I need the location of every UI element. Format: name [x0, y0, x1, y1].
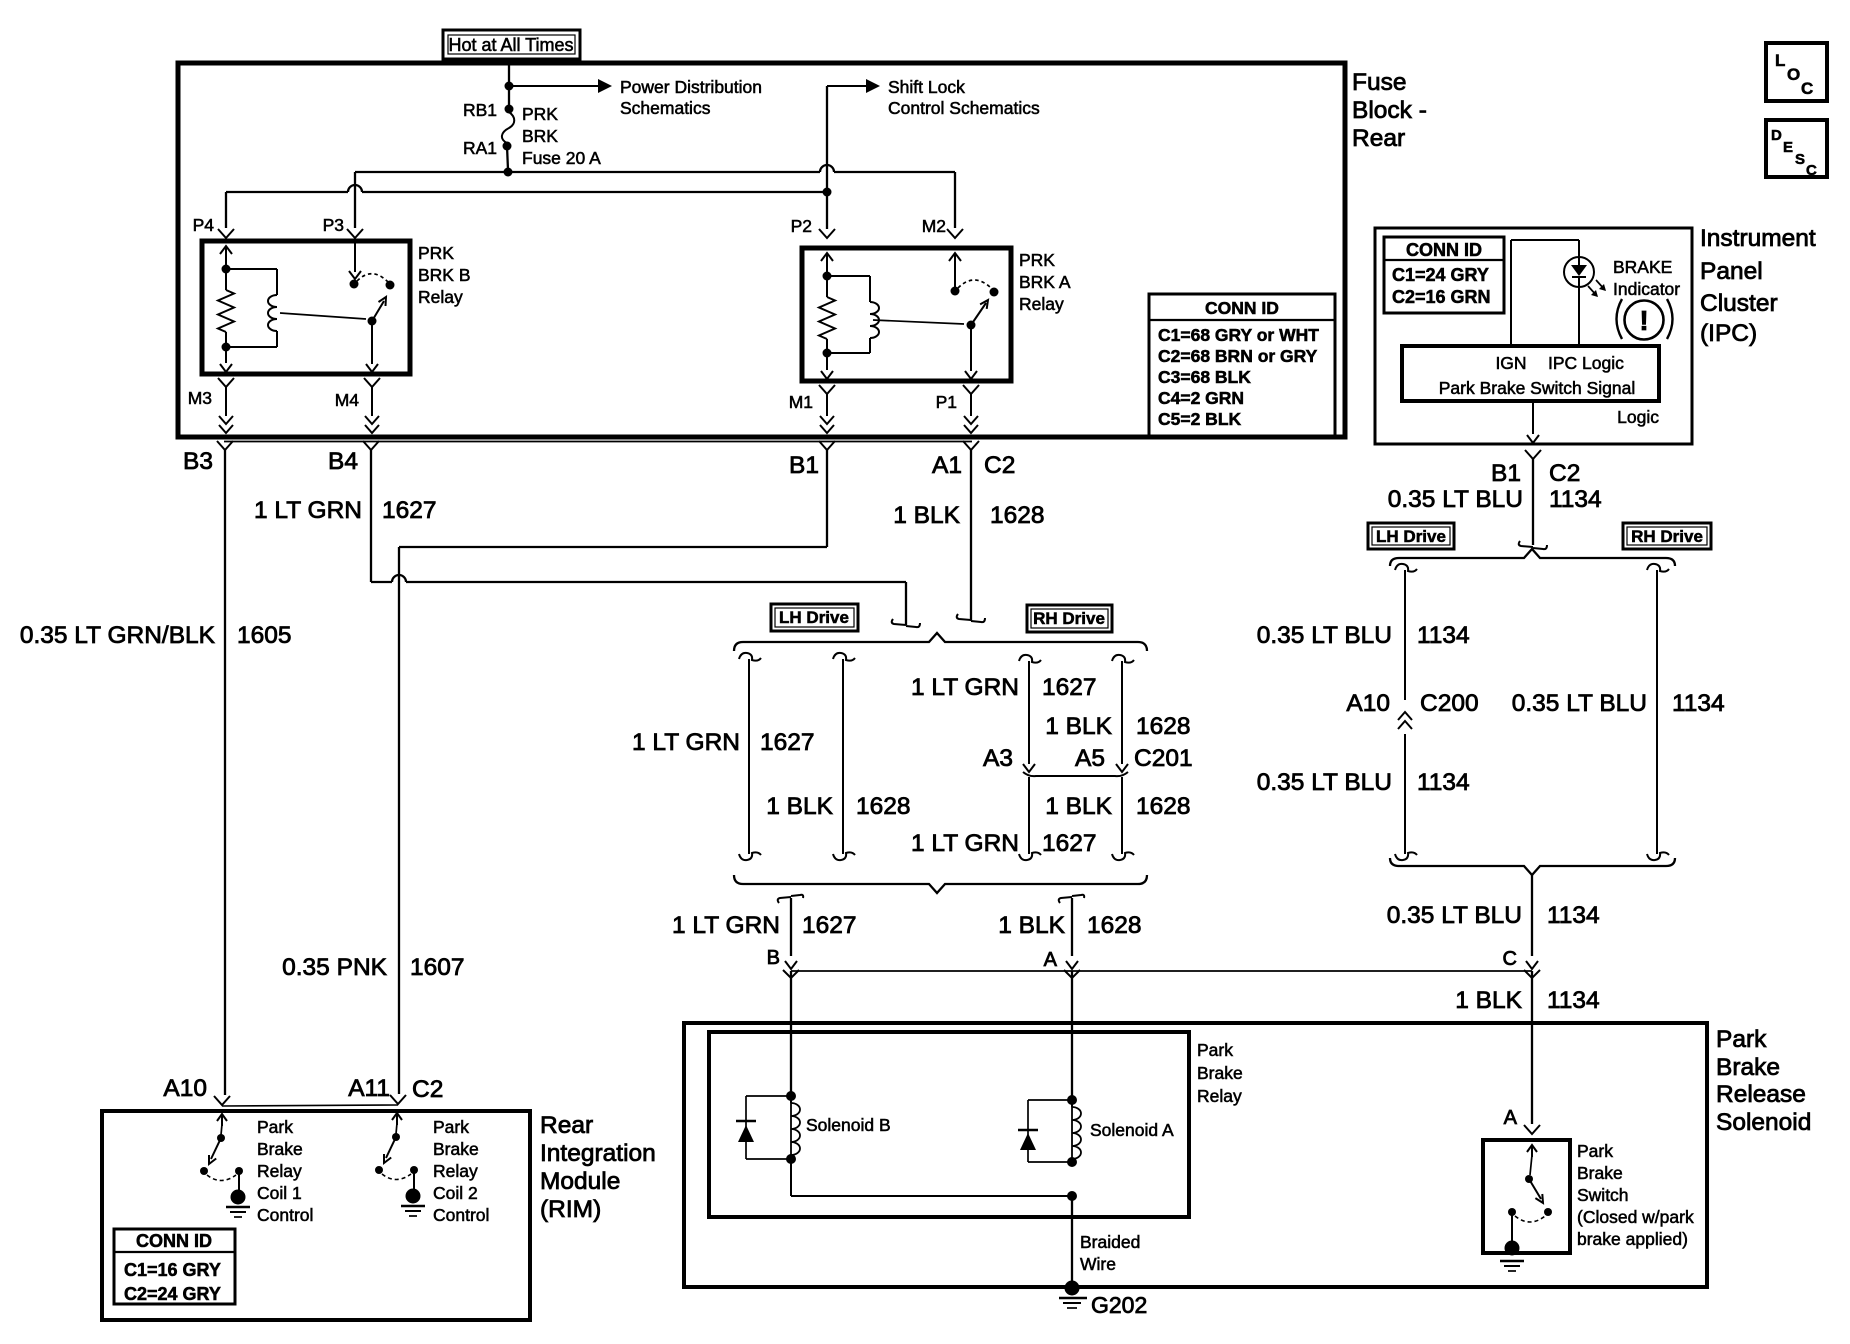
svg-text:Block -: Block - — [1352, 97, 1427, 124]
svg-text:1627: 1627 — [382, 497, 437, 524]
svg-text:C: C — [1801, 79, 1813, 98]
svg-text:0.35 LT BLU: 0.35 LT BLU — [1512, 690, 1647, 717]
svg-text:0.35 LT BLU: 0.35 LT BLU — [1257, 622, 1392, 649]
svg-text:M1: M1 — [789, 392, 813, 412]
svg-text:1627: 1627 — [802, 912, 857, 939]
svg-text:C5=2 BLK: C5=2 BLK — [1158, 409, 1242, 429]
svg-text:1627: 1627 — [1042, 674, 1097, 701]
svg-text:IGN: IGN — [1495, 353, 1526, 373]
svg-text:Indicator: Indicator — [1613, 279, 1680, 299]
svg-text:B3: B3 — [183, 448, 213, 475]
svg-text:Logic: Logic — [1617, 407, 1659, 427]
svg-text:A5: A5 — [1075, 745, 1105, 772]
svg-text:Release: Release — [1716, 1081, 1806, 1108]
svg-text:1134: 1134 — [1672, 690, 1725, 717]
svg-text:P4: P4 — [193, 215, 215, 235]
svg-text:1 LT GRN: 1 LT GRN — [632, 729, 740, 756]
svg-text:1 BLK: 1 BLK — [1045, 713, 1112, 740]
svg-text:1628: 1628 — [1087, 912, 1142, 939]
svg-text:LH Drive: LH Drive — [1376, 527, 1446, 546]
svg-text:IPC Logic: IPC Logic — [1548, 353, 1624, 373]
svg-text:Panel: Panel — [1700, 258, 1763, 285]
svg-text:P2: P2 — [791, 216, 812, 236]
svg-text:C1=16 GRY: C1=16 GRY — [124, 1260, 221, 1280]
svg-text:Control Schematics: Control Schematics — [888, 98, 1040, 118]
svg-text:Module: Module — [540, 1168, 620, 1195]
svg-text:E: E — [1783, 139, 1793, 156]
svg-text:C200: C200 — [1420, 690, 1479, 717]
svg-text:Cluster: Cluster — [1700, 290, 1778, 317]
svg-text:B1: B1 — [789, 452, 819, 479]
svg-text:A10: A10 — [163, 1075, 207, 1102]
svg-text:1134: 1134 — [1417, 622, 1470, 649]
svg-text:CONN ID: CONN ID — [136, 1231, 212, 1251]
svg-text:Integration: Integration — [540, 1140, 656, 1167]
svg-text:Brake: Brake — [433, 1139, 479, 1159]
svg-text:L: L — [1775, 51, 1785, 70]
svg-text:RB1: RB1 — [463, 100, 497, 120]
svg-text:1 BLK: 1 BLK — [1455, 987, 1522, 1014]
svg-text:Hot at All Times: Hot at All Times — [448, 35, 573, 55]
svg-text:1628: 1628 — [1136, 713, 1191, 740]
svg-text:PRK: PRK — [522, 104, 558, 124]
svg-text:BRK: BRK — [522, 126, 558, 146]
svg-text:C4=2 GRN: C4=2 GRN — [1158, 388, 1244, 408]
svg-text:1 BLK: 1 BLK — [1045, 793, 1112, 820]
svg-text:1628: 1628 — [856, 793, 911, 820]
svg-text:M4: M4 — [335, 390, 360, 410]
svg-text:LH Drive: LH Drive — [779, 608, 849, 627]
svg-text:A1: A1 — [932, 452, 962, 479]
svg-text:B1: B1 — [1491, 460, 1521, 487]
svg-text:C: C — [1806, 162, 1817, 179]
svg-text:1134: 1134 — [1549, 486, 1602, 513]
svg-text:1134: 1134 — [1417, 769, 1470, 796]
svg-text:Relay: Relay — [433, 1161, 478, 1181]
svg-text:Solenoid B: Solenoid B — [806, 1115, 891, 1135]
svg-text:C2: C2 — [984, 452, 1015, 479]
svg-text:Park: Park — [433, 1117, 469, 1137]
svg-text:brake applied): brake applied) — [1577, 1229, 1688, 1249]
svg-text:1 BLK: 1 BLK — [998, 912, 1065, 939]
svg-text:(Closed w/park: (Closed w/park — [1577, 1207, 1694, 1227]
svg-text:RA1: RA1 — [463, 138, 497, 158]
svg-text:Rear: Rear — [540, 1112, 593, 1139]
svg-text:1 BLK: 1 BLK — [766, 793, 833, 820]
svg-text:Brake: Brake — [1577, 1163, 1623, 1183]
svg-text:PRK: PRK — [418, 243, 454, 263]
svg-text:1628: 1628 — [990, 502, 1045, 529]
svg-text:C2=16 GRN: C2=16 GRN — [1392, 287, 1491, 307]
svg-text:C2=68 BRN or GRY: C2=68 BRN or GRY — [1158, 346, 1318, 366]
svg-text:Brake: Brake — [1197, 1063, 1243, 1083]
svg-text:M2: M2 — [922, 216, 946, 236]
svg-text:Instrument: Instrument — [1700, 225, 1816, 252]
svg-text:C2: C2 — [412, 1076, 443, 1103]
svg-text:1 LT GRN: 1 LT GRN — [911, 830, 1019, 857]
svg-text:Power Distribution: Power Distribution — [620, 77, 762, 97]
svg-text:1 BLK: 1 BLK — [893, 502, 960, 529]
svg-text:Relay: Relay — [257, 1161, 302, 1181]
svg-text:Solenoid A: Solenoid A — [1090, 1120, 1174, 1140]
svg-text:1134: 1134 — [1547, 902, 1600, 929]
svg-text:Park Brake Switch Signal: Park Brake Switch Signal — [1439, 378, 1635, 398]
svg-text:A11: A11 — [348, 1075, 390, 1102]
svg-text:Park: Park — [1716, 1026, 1767, 1053]
svg-text:0.35 LT BLU: 0.35 LT BLU — [1387, 902, 1522, 929]
svg-text:0.35 PNK: 0.35 PNK — [282, 954, 388, 981]
svg-text:!: ! — [1639, 305, 1648, 336]
svg-text:Solenoid: Solenoid — [1716, 1109, 1811, 1136]
svg-text:Park: Park — [1197, 1040, 1233, 1060]
svg-text:(RIM): (RIM) — [540, 1196, 601, 1223]
svg-text:1607: 1607 — [410, 954, 465, 981]
svg-text:B4: B4 — [328, 448, 358, 475]
svg-text:Shift Lock: Shift Lock — [888, 77, 965, 97]
svg-text:Relay: Relay — [418, 287, 463, 307]
svg-text:PRK: PRK — [1019, 250, 1055, 270]
svg-text:Switch: Switch — [1577, 1185, 1629, 1205]
svg-text:BRK A: BRK A — [1019, 272, 1071, 292]
svg-text:Coil 1: Coil 1 — [257, 1183, 302, 1203]
svg-text:1628: 1628 — [1136, 793, 1191, 820]
svg-text:Park: Park — [257, 1117, 293, 1137]
svg-text:Relay: Relay — [1197, 1086, 1242, 1106]
svg-text:Control: Control — [257, 1205, 313, 1225]
svg-text:A: A — [1044, 949, 1058, 971]
svg-text:Control: Control — [433, 1205, 489, 1225]
svg-text:S: S — [1795, 151, 1805, 168]
svg-text:C1=24 GRY: C1=24 GRY — [1392, 265, 1489, 285]
svg-text:1627: 1627 — [760, 729, 815, 756]
svg-text:Rear: Rear — [1352, 125, 1405, 152]
svg-text:Schematics: Schematics — [620, 98, 711, 118]
svg-text:Brake: Brake — [257, 1139, 303, 1159]
svg-text:1134: 1134 — [1547, 987, 1600, 1014]
svg-text:Fuse 20 A: Fuse 20 A — [522, 148, 601, 168]
svg-text:1627: 1627 — [1042, 830, 1097, 857]
svg-text:Brake: Brake — [1716, 1054, 1780, 1081]
svg-text:O: O — [1787, 65, 1800, 84]
svg-text:A3: A3 — [983, 745, 1013, 772]
svg-text:RH Drive: RH Drive — [1033, 609, 1105, 628]
svg-text:1 LT GRN: 1 LT GRN — [254, 497, 362, 524]
svg-text:Coil 2: Coil 2 — [433, 1183, 478, 1203]
svg-text:C2=24 GRY: C2=24 GRY — [124, 1284, 221, 1304]
svg-text:0.35 LT GRN/BLK: 0.35 LT GRN/BLK — [20, 622, 216, 649]
svg-text:0.35 LT BLU: 0.35 LT BLU — [1388, 486, 1523, 513]
svg-text:A10: A10 — [1346, 690, 1390, 717]
svg-text:G202: G202 — [1091, 1292, 1147, 1318]
svg-text:BRAKE: BRAKE — [1613, 257, 1672, 277]
svg-text:1 LT GRN: 1 LT GRN — [672, 912, 780, 939]
svg-text:C: C — [1503, 948, 1517, 970]
svg-text:BRK B: BRK B — [418, 265, 471, 285]
svg-text:CONN ID: CONN ID — [1406, 240, 1482, 260]
svg-text:C3=68 BLK: C3=68 BLK — [1158, 367, 1251, 387]
svg-text:Fuse: Fuse — [1352, 69, 1406, 96]
svg-text:B: B — [767, 947, 780, 969]
svg-text:(IPC): (IPC) — [1700, 320, 1757, 347]
svg-text:Relay: Relay — [1019, 294, 1064, 314]
svg-text:C2: C2 — [1549, 460, 1580, 487]
svg-text:P1: P1 — [936, 392, 957, 412]
svg-text:RH Drive: RH Drive — [1631, 527, 1703, 546]
svg-text:0.35 LT BLU: 0.35 LT BLU — [1257, 769, 1392, 796]
svg-text:C1=68 GRY or WHT: C1=68 GRY or WHT — [1158, 325, 1319, 345]
svg-text:Braided: Braided — [1080, 1232, 1140, 1252]
svg-text:1605: 1605 — [237, 622, 292, 649]
svg-text:M3: M3 — [188, 388, 212, 408]
svg-text:Park: Park — [1577, 1141, 1613, 1161]
svg-text:A: A — [1504, 1107, 1518, 1129]
svg-text:1 LT GRN: 1 LT GRN — [911, 674, 1019, 701]
svg-text:Wire: Wire — [1080, 1254, 1116, 1274]
svg-text:CONN ID: CONN ID — [1205, 298, 1279, 318]
svg-text:P3: P3 — [323, 215, 344, 235]
svg-text:D: D — [1771, 127, 1782, 144]
svg-text:C201: C201 — [1134, 745, 1193, 772]
